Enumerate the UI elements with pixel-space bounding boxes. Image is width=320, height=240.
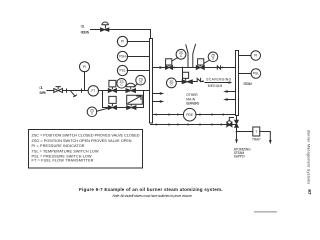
node: oil supply header (double line) (150, 39, 153, 124)
node: figure caption (79, 187, 223, 198)
svg-text:MEDIUM: MEDIUM (208, 84, 223, 88)
wire: PSL to header (127, 70, 149, 72)
svg-text:PSL: PSL (253, 72, 259, 76)
node: page margin text (306, 130, 312, 195)
valve V4 oil control valve (main line) (126, 89, 136, 93)
actuator box of V8 (198, 59, 204, 66)
wire: PSH to header (127, 56, 149, 58)
junction (202, 80, 204, 82)
valve V6 recirculation control valve (127, 106, 136, 110)
node: OTHER MAIN BURNERS label (186, 93, 200, 105)
wire: other burner takeoff 2 (oil) (153, 101, 161, 103)
wire: steam drop to atomizing supply (236, 116, 238, 139)
svg-text:ZSC = POSITION SWITCH CLOSED P: ZSC = POSITION SWITCH CLOSED PROVES VALV… (32, 134, 140, 138)
wire: trap outlet (260, 132, 271, 140)
valve V9 scavenging shutoff (182, 80, 192, 84)
wire: PI to steam header (239, 55, 252, 57)
svg-text:STEAM: STEAM (243, 82, 252, 86)
wire: PSL to steam header (239, 73, 252, 75)
svg-text:Burner Management Systems: Burner Management Systems (306, 130, 310, 184)
instrument PSL (steam pressure switch low) (251, 69, 261, 79)
position switch ZSC (V3) (117, 79, 127, 89)
svg-text:BURNERS: BURNERS (186, 102, 200, 106)
actuator diaphragm of V1 (102, 22, 109, 28)
wire: manifold left drop (102, 91, 104, 108)
svg-text:PI = PRESSURE INDICATOR: PI = PRESSURE INDICATOR (32, 144, 85, 148)
wire: atomizing steam balance line (153, 114, 236, 116)
position switch ZSC (V7) (176, 49, 186, 59)
svg-text:PDE: PDE (186, 113, 193, 117)
svg-text:PSL: PSL (119, 69, 125, 73)
svg-text:FT: FT (91, 89, 95, 93)
node: steam header (double line) (236, 51, 239, 116)
regulator PCV on lower line (227, 122, 232, 126)
wire: leader ZSC to V7 (172, 58, 178, 61)
position switch ZSO (V4) (136, 75, 146, 85)
wire: other burner steam takeoff 1 (227, 91, 235, 93)
flow arrow on burner branch (157, 67, 160, 69)
valve V1 oil return control valve (101, 28, 109, 31)
actuator box of V9 (183, 72, 189, 80)
steam trap T (253, 127, 260, 136)
check valve on burner branch (217, 66, 220, 69)
wire: other burner steam takeoff 2 (227, 99, 235, 101)
svg-text:SCAVENGING: SCAVENGING (206, 78, 231, 82)
svg-text:RETURN: RETURN (81, 30, 90, 34)
wire: lower line rise to main line (143, 91, 145, 108)
valve V2 manual oil supply valve (54, 89, 63, 93)
junction (182, 67, 184, 69)
node: legend box (29, 130, 143, 169)
wire: other burner takeoff 1 (oil) (153, 93, 161, 95)
actuator box of V7 (166, 59, 172, 66)
svg-text:Note: All shutoff valves must: Note: All shutoff valves must have switc… (113, 194, 193, 198)
svg-text:OIL: OIL (39, 86, 43, 90)
svg-text:SUPPLY: SUPPLY (234, 154, 246, 158)
wire: leader ZSO to V8 (204, 60, 210, 63)
instrument PI (steam pressure) (251, 51, 261, 61)
node: SCAVENGING MEDIUM label with arrow (206, 78, 231, 89)
valve V5 recirculation valve (108, 106, 116, 110)
instrument PSL (pressure switch low) (117, 65, 127, 75)
wire: ZSO leader to V9 (176, 81, 182, 83)
position switch ZSO (V9) (167, 78, 177, 88)
flange tick (66, 89, 68, 92)
drain tap on supply line (71, 91, 77, 96)
svg-text:PI: PI (83, 65, 86, 69)
wire: burner branch line (153, 67, 236, 69)
instrument FT fuel flow transmitter (88, 86, 98, 96)
wire: leader ZSO to V4 (134, 84, 138, 87)
actuator box of V5 (109, 96, 116, 105)
wire: scavenging line (192, 81, 197, 83)
wire: tap up to PI (84, 72, 86, 91)
arrow: trap discharge (269, 140, 272, 145)
svg-text:SUPPLY: SUPPLY (39, 91, 47, 95)
wire: oil supply line (47, 90, 108, 92)
wire: to steam trap (237, 131, 253, 133)
node: burner gun riser (186, 44, 196, 67)
instrument PSH (pressure switch high) (117, 51, 127, 61)
position switch ZSC (V5) (87, 107, 97, 117)
junction (173, 67, 175, 69)
svg-text:T: T (255, 130, 257, 134)
actuator diaphragm of V4 (126, 83, 135, 88)
svg-text:OIL: OIL (81, 24, 85, 28)
valve V7 burner safety shutoff 1 (166, 66, 173, 70)
valve V10 steam shutoff (vertical) (235, 120, 239, 127)
wire: oil return line (91, 30, 151, 39)
junction dots on balance line (155, 114, 224, 116)
legend text (32, 134, 140, 163)
svg-text:97: 97 (306, 189, 312, 195)
svg-text:PSL = PRESSURE SWITCH LOW: PSL = PRESSURE SWITCH LOW (32, 154, 92, 158)
svg-text:FT = FUEL FLOW TRANSMITTER: FT = FUEL FLOW TRANSMITTER (32, 159, 94, 163)
check valve on scavenging line (197, 78, 200, 81)
junction (236, 131, 238, 133)
instrument PI (oil header pressure indicator) (117, 36, 127, 46)
svg-text:ZSO = POSITION SWITCH OPEN PRO: ZSO = POSITION SWITCH OPEN PROVES VALVE … (32, 139, 132, 143)
junction (222, 67, 224, 69)
wire: main line to header (136, 90, 150, 92)
valve V3 oil shutoff (main line) (108, 89, 116, 93)
instrument PI (oil supply pressure) (80, 62, 90, 72)
flange tick (81, 89, 83, 92)
node: ATOMIZING STEAM SUPPLY label (234, 147, 251, 158)
junction dots on lower line (155, 124, 222, 126)
wire: scavenging drop from burner branch (182, 68, 184, 81)
wire: lower distribution line (151, 124, 237, 126)
arrow: atomizing steam supply (235, 139, 238, 144)
svg-text:Figure 9-7 Example of an oil b: Figure 9-7 Example of an oil burner stea… (79, 187, 223, 192)
svg-text:TSL = TEMPERATURE SWITCH LOW: TSL = TEMPERATURE SWITCH LOW (32, 149, 99, 153)
position switch ZSO (V8) (208, 52, 218, 62)
instrument PDE differential regulator sensor (183, 108, 196, 121)
actuator box of V3 (109, 80, 116, 88)
svg-text:PI: PI (254, 54, 257, 58)
node: OIL RETURN label (81, 24, 90, 34)
svg-text:TRAP: TRAP (252, 138, 261, 142)
actuator box with characterizing diagonal of V6 (127, 95, 143, 105)
node: faint printing rule bottom right (254, 211, 277, 213)
svg-text:PSH: PSH (119, 55, 126, 59)
wire: leader ZSC to V5 (97, 108, 110, 112)
wire: main line between valves (117, 90, 127, 92)
wire: recirculation lower line (103, 107, 144, 109)
valve V8 burner safety shutoff 2 (196, 66, 204, 70)
wire: PI to header (127, 41, 149, 43)
svg-text:PI: PI (121, 40, 124, 44)
node: OIL SUPPLY label (39, 86, 47, 95)
